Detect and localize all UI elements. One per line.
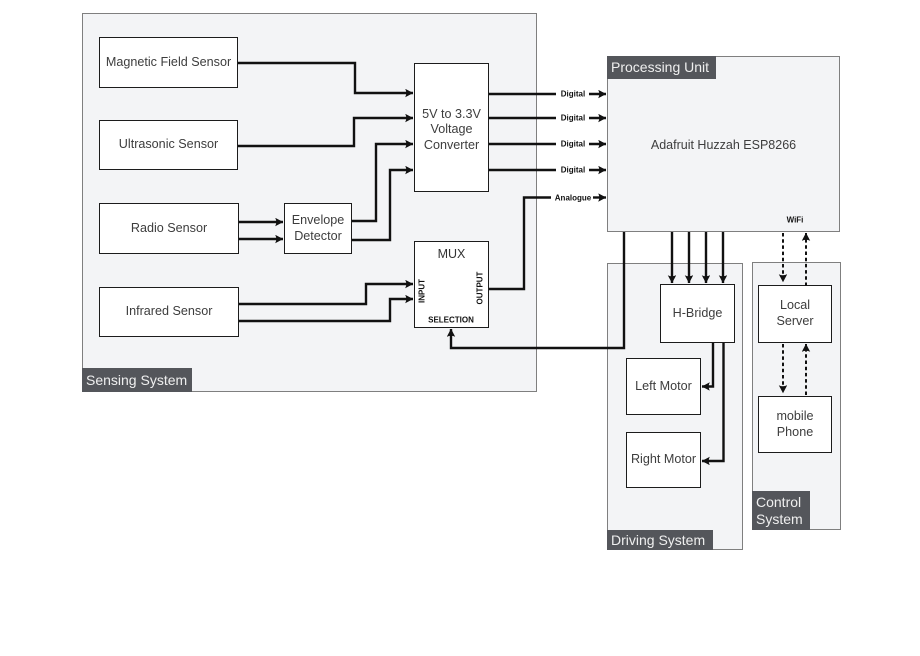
wire converter digital 2 [489,117,556,119]
wire processing unit to h-bridge 2 [688,232,690,283]
block Magnetic Field Sensor [99,37,238,88]
arrow digital 1 into processing unit [589,93,606,95]
arrow digital 4 into processing unit [589,169,606,171]
wire radio sensor to envelope detector b [239,238,283,240]
sensing system title bar [82,368,192,392]
arrow analogue into processing unit [593,196,606,198]
wire processing unit to h-bridge 3 [705,232,707,283]
arrow digital 3 into processing unit [589,143,606,145]
wire envelope detector to converter a [352,144,413,221]
processing unit container [607,56,840,232]
bus label Digital 3 [561,140,585,149]
dashed wire mobile phone to local server [805,344,807,395]
pin label INPUT [418,279,427,303]
arrow digital 2 into processing unit [589,117,606,119]
block Radio Sensor [99,203,239,254]
wire radio sensor to envelope detector a [239,221,283,223]
wire converter digital 4 [489,169,556,171]
block Ultrasonic Sensor [99,120,238,170]
wire processing unit to h-bridge 1 [671,232,673,283]
wire infrared sensor to mux input b [239,299,413,321]
wire converter digital 3 [489,143,556,145]
processing unit title bar [607,56,716,79]
block H-Bridge [660,284,735,343]
block MUX [414,241,489,328]
block 5V to 3.3V Voltage Converter [414,63,489,192]
bus label Digital 4 [561,166,585,175]
wire magnetic sensor to converter [238,63,413,93]
wire infrared sensor to mux input a [239,284,413,304]
control system title bar [752,491,810,530]
wire converter digital 1 [489,93,556,95]
pin label SELECTION [428,316,474,325]
sensing system container [82,13,537,392]
wire mux output analogue [489,198,551,290]
block Adafruit Huzzah ESP8266 label [607,138,840,152]
block Infrared Sensor [99,287,239,337]
bus label Digital 1 [561,90,585,99]
bus label Analogue [555,193,591,202]
block mobile Phone [758,396,832,453]
wire processing unit to mux selection [451,232,624,348]
dashed wire local server to mobile phone [782,344,784,393]
wire processing unit to h-bridge 4 [722,232,724,283]
bus label Digital 2 [561,114,585,123]
wire h-bridge to left motor [702,343,713,387]
block Local Server [758,285,832,343]
wire envelope detector to converter b [352,170,413,240]
driving system container [607,263,743,550]
driving system title bar [607,530,713,550]
block Envelope Detector [284,203,352,254]
block Right Motor [626,432,701,488]
control system container [752,262,841,530]
wire ultrasonic sensor to converter [238,118,413,146]
wire h-bridge to right motor [702,343,724,461]
pin label OUTPUT [476,272,485,305]
block Left Motor [626,358,701,415]
dashed wifi wire local server to processing unit [805,233,807,286]
dashed wifi wire processing unit to local server [782,233,784,282]
pin label WiFi [787,216,804,225]
